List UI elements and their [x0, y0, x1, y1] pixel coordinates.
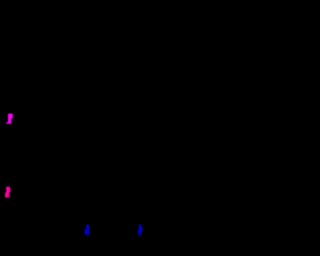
sprite: blue character 2 (bottom middle-right): [138, 224, 142, 236]
game screen: [0, 0, 256, 256]
sprite: blue character 1 (bottom middle-left): [85, 225, 90, 235]
sprite: pink character (lower left): [5, 187, 10, 198]
sprite: magenta character (upper left): [6, 114, 13, 124]
